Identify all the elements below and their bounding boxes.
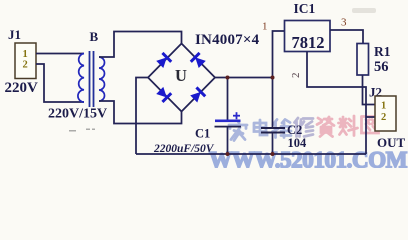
- wire J1 pin1 to primary top: [36, 53, 84, 55]
- svg-text:2: 2: [381, 112, 386, 123]
- junction dot at IC input corner: [271, 76, 275, 80]
- C2 plate top: [261, 127, 285, 129]
- regulator IC1 box: [285, 21, 331, 52]
- faint scan smudge top right: [352, 8, 376, 13]
- C1 negative plate: [215, 126, 242, 128]
- capacitor C2 top lead: [272, 78, 274, 128]
- resistor R1 box: [357, 44, 369, 76]
- svg-text:IN4007×4: IN4007×4: [195, 32, 260, 48]
- transformer secondary winding: [99, 57, 105, 101]
- svg-text:U: U: [175, 66, 187, 85]
- svg-text:B: B: [90, 29, 99, 44]
- svg-text:C1: C1: [195, 127, 210, 141]
- C1 negative lead: [227, 128, 229, 155]
- wire secondary top to bridge top vertex: [99, 32, 182, 58]
- wire J2 pin2 stub: [366, 116, 375, 118]
- connector J1 box: [15, 43, 36, 79]
- wire bridge left vertex to ground riser: [136, 78, 148, 155]
- wire bridge right vertex to IC input: [215, 31, 285, 78]
- svg-text:OUT: OUT: [377, 135, 406, 150]
- svg-text:3: 3: [341, 17, 347, 29]
- svg-text:7812: 7812: [292, 33, 325, 52]
- svg-text:220V/15V: 220V/15V: [48, 107, 107, 122]
- wm char 3: [273, 120, 292, 138]
- wire IC pin2 ground to rail: [307, 52, 366, 155]
- svg-text:220V: 220V: [5, 80, 39, 96]
- svg-text:WWW.520101.COM: WWW.520101.COM: [209, 148, 408, 169]
- wm char 6: [339, 116, 358, 136]
- bridge rectifier U diamond: [148, 44, 215, 112]
- svg-text:J1: J1: [8, 27, 21, 42]
- junction dot C2 bottom: [271, 152, 275, 156]
- diode D3 (bottom-left edge, points to bottom vertex): [155, 86, 171, 102]
- C1 plus sign: [233, 112, 240, 119]
- wire secondary bottom to bridge bottom vertex: [99, 101, 182, 124]
- svg-text:2: 2: [290, 73, 302, 79]
- svg-text:2: 2: [23, 60, 28, 71]
- svg-text:IC1: IC1: [294, 1, 316, 16]
- junction dot C1 bottom: [226, 152, 230, 156]
- C2 bottom lead: [272, 134, 274, 155]
- svg-text:1: 1: [23, 49, 28, 60]
- wire J1 pin2 to primary bottom: [36, 64, 84, 102]
- capacitor C1 positive lead: [227, 78, 229, 120]
- diode D2 (top-right edge, points to top vertex): [191, 53, 207, 69]
- diode D4 (bottom-right edge, points to right vertex): [189, 87, 205, 103]
- ground rail: [136, 153, 366, 155]
- wm char 1: [229, 121, 247, 141]
- svg-text:2200uF/50V: 2200uF/50V: [153, 143, 215, 155]
- C1 positive plate: [215, 120, 241, 123]
- svg-text:104: 104: [288, 136, 308, 150]
- wm char 2: [254, 120, 267, 135]
- C2 plate bottom: [261, 132, 285, 134]
- svg-text:C2: C2: [287, 123, 302, 137]
- svg-text:1: 1: [381, 101, 386, 112]
- diode D1 (top-left edge, points to top vertex): [155, 53, 171, 69]
- transformer primary winding: [78, 54, 84, 103]
- paper specks: [69, 130, 76, 132]
- wire R1 bottom to J2 pin1: [363, 75, 376, 105]
- svg-text:56: 56: [374, 59, 389, 75]
- svg-text:R1: R1: [374, 44, 391, 59]
- watermark row: jiadian weixiu ziliao wang (drawn glyphs): [229, 116, 379, 141]
- svg-text:1: 1: [262, 21, 268, 33]
- junction dot C1 top: [226, 76, 230, 80]
- wm char 7: [362, 117, 379, 134]
- transformer core: [89, 51, 91, 107]
- wm char 4: [295, 118, 314, 137]
- connector J2 box: [375, 96, 396, 131]
- wire IC output to R1: [330, 30, 363, 44]
- wm char 5: [317, 117, 334, 137]
